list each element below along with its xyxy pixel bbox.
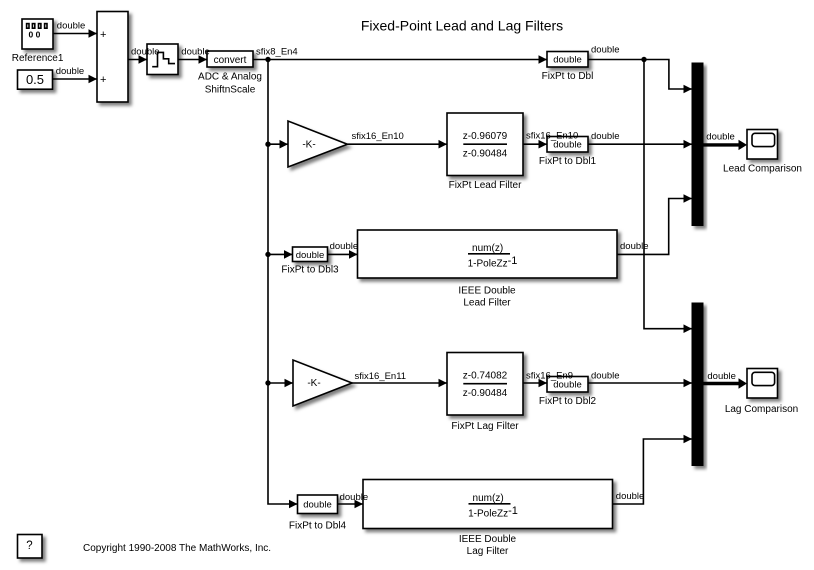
wire FixPt to Dbl3 to IEEE lead bbox=[328, 250, 358, 259]
wire lag Mux to Lag Comparison scope (thick) bbox=[703, 378, 747, 388]
wire branch dot down to Mux1 (lag) input 1 bbox=[644, 60, 692, 334]
wire IEEE lag to lag Mux input 3 bbox=[613, 435, 693, 504]
svg-text:double: double bbox=[330, 241, 359, 252]
wire branch to FixPt to Dbl3 bbox=[268, 250, 293, 259]
svg-text:Lead Comparison: Lead Comparison bbox=[723, 163, 802, 174]
block FixPt to Dbl2 bbox=[539, 377, 597, 408]
wire IEEE lead to Mux input 3 bbox=[617, 194, 692, 254]
block ADC convert bbox=[198, 51, 262, 96]
block help ? bbox=[18, 535, 43, 559]
wire FixPt Lead Filter to FixPt to Dbl1 bbox=[523, 140, 547, 149]
block IEEE Double Lag Filter bbox=[363, 480, 613, 558]
svg-text:Reference1: Reference1 bbox=[12, 53, 64, 64]
block Lead Comparison scope bbox=[723, 130, 802, 175]
svg-text:double: double bbox=[296, 250, 325, 261]
svg-text:sfix16_En10: sfix16_En10 bbox=[352, 131, 404, 142]
block FixPt to Dbl bbox=[542, 52, 594, 83]
svg-text:FixPt to Dbl4: FixPt to Dbl4 bbox=[289, 521, 347, 532]
wire FixPt to Dbl1 to Mux bbox=[588, 140, 692, 149]
svg-text:IEEE Double: IEEE Double bbox=[458, 286, 516, 297]
block FixPt Lag Filter bbox=[447, 353, 523, 433]
block Mux lag bbox=[692, 303, 703, 466]
wire branch to lead gain bbox=[268, 140, 288, 149]
block FixPt to Dbl4 bbox=[289, 495, 347, 532]
block FixPt to Dbl1 bbox=[539, 137, 597, 168]
wire branch to lag gain bbox=[268, 379, 293, 388]
wire lag gain to FixPt Lag Filter bbox=[352, 379, 447, 388]
svg-text:0 0: 0 0 bbox=[28, 30, 40, 40]
svg-text:ShiftnScale: ShiftnScale bbox=[205, 85, 256, 96]
block Reference1 bbox=[12, 19, 64, 64]
svg-text:double: double bbox=[620, 241, 649, 252]
svg-text:Fixed-Point Lead and Lag Filte: Fixed-Point Lead and Lag Filters bbox=[361, 18, 563, 34]
svg-text:+: + bbox=[100, 29, 106, 41]
node junction dot at convert output bbox=[265, 57, 270, 62]
wire ZOH to convert bbox=[178, 55, 207, 64]
svg-text:FixPt to Dbl1: FixPt to Dbl1 bbox=[539, 156, 597, 167]
node junction dot lag gain branch bbox=[265, 380, 270, 385]
svg-text:IEEE Double: IEEE Double bbox=[459, 534, 517, 545]
block constant 0.5 bbox=[18, 70, 53, 89]
svg-text:double: double bbox=[57, 21, 86, 32]
block FixPt Lead Filter bbox=[447, 113, 523, 191]
svg-text:double: double bbox=[56, 66, 85, 77]
svg-text:FixPt to Dbl2: FixPt to Dbl2 bbox=[539, 396, 597, 407]
wire trunk vertical to FixPt to Dbl4 bbox=[268, 60, 298, 509]
svg-text:z-0.90484: z-0.90484 bbox=[463, 148, 508, 159]
svg-text:double: double bbox=[131, 47, 160, 58]
svg-text:-K-: -K- bbox=[307, 378, 320, 389]
node junction dot Dbl3 branch bbox=[265, 252, 270, 257]
svg-text:double: double bbox=[706, 132, 735, 143]
svg-text:z-0.74082: z-0.74082 bbox=[463, 371, 508, 382]
svg-text:double: double bbox=[553, 55, 582, 66]
svg-text:FixPt Lead Filter: FixPt Lead Filter bbox=[449, 180, 522, 191]
wire Reference1 to Sum bbox=[53, 29, 97, 38]
svg-text:double: double bbox=[340, 492, 369, 503]
svg-text:Lag Comparison: Lag Comparison bbox=[725, 404, 798, 415]
svg-text:double: double bbox=[181, 47, 210, 58]
svg-text:sfix16_En9: sfix16_En9 bbox=[526, 371, 573, 382]
wire FixPt to Dbl4 to IEEE lag bbox=[338, 500, 364, 509]
svg-text:num(z): num(z) bbox=[472, 243, 503, 254]
block gain lead -K- bbox=[288, 121, 347, 167]
block IEEE Double Lead Filter bbox=[358, 230, 618, 309]
block Zero-Order Hold bbox=[147, 44, 178, 75]
block FixPt to Dbl3 bbox=[281, 247, 339, 275]
svg-text:FixPt Lag Filter: FixPt Lag Filter bbox=[451, 421, 519, 432]
wire lead gain to FixPt Lead Filter bbox=[347, 140, 447, 149]
svg-text:+: + bbox=[100, 74, 106, 86]
svg-text:Copyright 1990-2008 The MathWo: Copyright 1990-2008 The MathWorks, Inc. bbox=[83, 543, 271, 554]
wire Constant 0.5 to Sum bbox=[53, 75, 98, 84]
svg-text:sfix16_En10: sfix16_En10 bbox=[526, 130, 578, 141]
wire FixPt to Dbl2 to lag Mux bbox=[588, 379, 692, 388]
wire FixPt to Dbl to Mux input 1 bbox=[588, 60, 692, 94]
svg-text:z-0.90484: z-0.90484 bbox=[463, 388, 508, 399]
svg-text:?: ? bbox=[26, 540, 32, 552]
node junction dot FixPt to Dbl output bbox=[641, 57, 646, 62]
block Sum bbox=[97, 12, 128, 103]
svg-text:convert: convert bbox=[214, 55, 247, 66]
wire Sum to ZOH bbox=[128, 55, 147, 64]
svg-text:Lag Filter: Lag Filter bbox=[467, 546, 509, 557]
svg-text:sfix16_En11: sfix16_En11 bbox=[355, 371, 407, 382]
svg-text:double: double bbox=[591, 131, 620, 142]
wire FixPt Lag Filter to FixPt to Dbl2 bbox=[523, 379, 547, 388]
svg-text:ADC & Analog: ADC & Analog bbox=[198, 72, 262, 83]
svg-text:-K-: -K- bbox=[302, 139, 315, 150]
svg-text:0.5: 0.5 bbox=[26, 72, 44, 87]
svg-text:double: double bbox=[707, 371, 736, 382]
svg-text:num(z): num(z) bbox=[473, 493, 504, 504]
svg-text:double: double bbox=[591, 371, 620, 382]
node junction dot lead gain branch bbox=[265, 142, 270, 147]
block Mux lead bbox=[692, 63, 703, 226]
svg-text:double: double bbox=[616, 491, 645, 502]
svg-text:Lead Filter: Lead Filter bbox=[463, 298, 511, 309]
block gain lag -K- bbox=[293, 360, 352, 406]
svg-text:double: double bbox=[591, 45, 620, 56]
svg-text:FixPt to Dbl3: FixPt to Dbl3 bbox=[281, 264, 339, 275]
wire Mux to Lead Comparison scope (thick) bbox=[703, 140, 747, 150]
svg-text:z-0.96079: z-0.96079 bbox=[463, 131, 508, 142]
svg-text:double: double bbox=[303, 500, 332, 511]
block Lag Comparison scope bbox=[725, 369, 798, 415]
wire convert to FixPt to Dbl bbox=[253, 55, 547, 64]
svg-text:FixPt to Dbl: FixPt to Dbl bbox=[542, 71, 594, 82]
svg-text:sfix8_En4: sfix8_En4 bbox=[256, 47, 298, 58]
